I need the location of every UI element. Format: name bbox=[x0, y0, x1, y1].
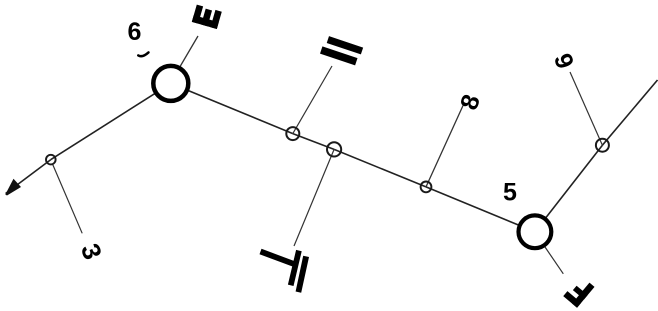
svg-text:5: 5 bbox=[503, 179, 517, 207]
T stem bbox=[260, 249, 296, 267]
wire E2-N5 bbox=[426, 187, 535, 232]
wire A-B bbox=[51, 83, 171, 159]
I bar bbox=[296, 256, 309, 293]
wire leader D-TI bbox=[294, 149, 334, 246]
wire leader B-E bbox=[180, 36, 199, 68]
arrowhead bbox=[5, 179, 21, 196]
node B bbox=[153, 66, 188, 101]
wire B-C bbox=[171, 83, 293, 133]
wire leader N5-F bbox=[545, 247, 563, 274]
wire leader C-II bbox=[293, 66, 332, 134]
svg-text:6: 6 bbox=[128, 18, 142, 46]
wire N5-G bbox=[535, 145, 603, 232]
node N5 bbox=[519, 215, 552, 248]
label F (rotated bold F) bbox=[563, 275, 594, 307]
wire leader A-3 bbox=[53, 164, 83, 233]
node C bbox=[286, 127, 299, 140]
label TI (rotated bold T and I) bbox=[260, 249, 310, 293]
wire G-topright bbox=[602, 80, 657, 145]
wire leader G-9 bbox=[570, 72, 602, 145]
node D bbox=[327, 142, 341, 156]
wire leader E2-8 bbox=[426, 105, 464, 187]
wire C-D bbox=[293, 134, 334, 150]
label E (rotated bold E) bbox=[192, 5, 222, 29]
wire D-E2 bbox=[334, 149, 426, 187]
node A bbox=[46, 155, 56, 165]
node E2 bbox=[421, 182, 432, 193]
node G bbox=[596, 139, 609, 152]
wire arrow-to-A bbox=[6, 160, 51, 194]
label II (two bold bars) bbox=[320, 35, 363, 66]
tick under 6 bbox=[138, 52, 148, 56]
T top bar bbox=[288, 250, 302, 286]
